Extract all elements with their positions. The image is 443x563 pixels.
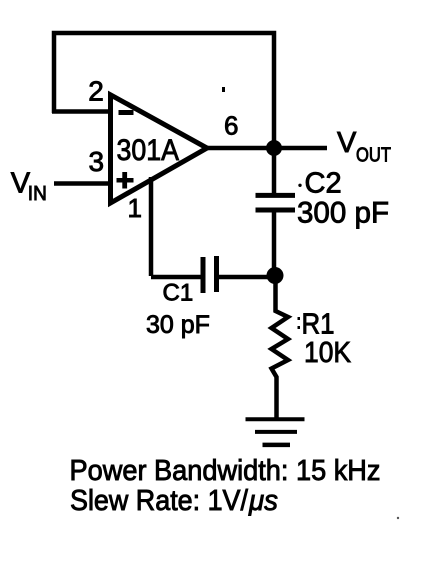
svg-text:6: 6 bbox=[224, 111, 238, 141]
svg-text:C2: C2 bbox=[305, 168, 342, 200]
svg-text:1: 1 bbox=[128, 193, 142, 223]
svg-text:IN: IN bbox=[28, 183, 47, 205]
svg-text:10K: 10K bbox=[304, 337, 352, 369]
svg-text:2: 2 bbox=[88, 76, 104, 107]
svg-text:μs: μs bbox=[248, 485, 278, 517]
svg-text:Power Bandwidth: 15 kHz: Power Bandwidth: 15 kHz bbox=[70, 455, 381, 487]
svg-text:300 pF: 300 pF bbox=[297, 197, 389, 230]
svg-text:Slew Rate: 1V/: Slew Rate: 1V/ bbox=[70, 485, 249, 517]
svg-text:301A: 301A bbox=[117, 134, 180, 167]
svg-text:30 pF: 30 pF bbox=[146, 311, 210, 339]
svg-text:3: 3 bbox=[89, 146, 105, 177]
svg-text:V: V bbox=[337, 127, 357, 159]
svg-text:C1: C1 bbox=[163, 280, 194, 307]
svg-text:OUT: OUT bbox=[356, 144, 391, 166]
svg-text:R1: R1 bbox=[302, 309, 335, 341]
